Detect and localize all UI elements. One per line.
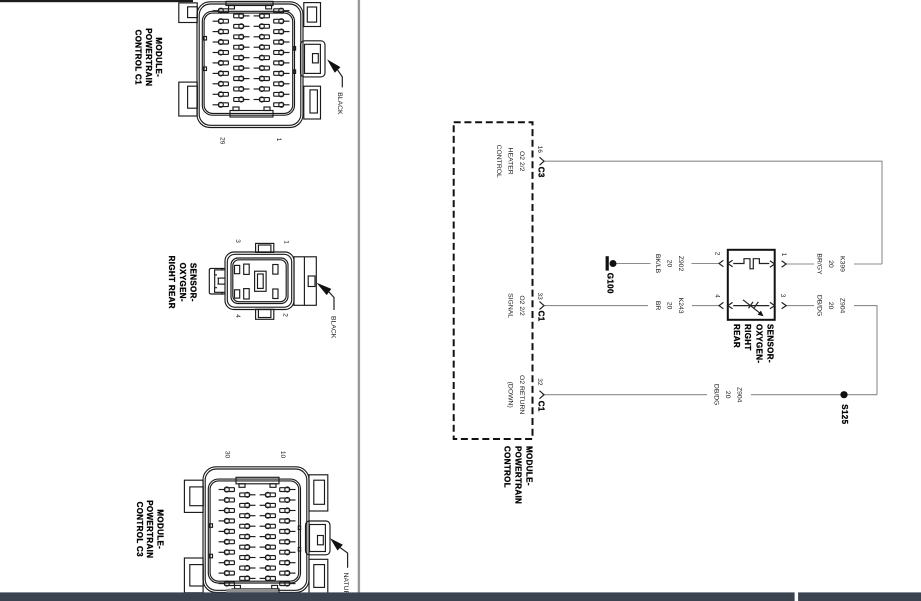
svg-text:REAR: REAR	[732, 324, 741, 348]
svg-text:K399: K399	[839, 256, 846, 272]
svg-text:O2 2/2: O2 2/2	[518, 295, 525, 316]
svg-text:C3: C3	[537, 167, 546, 178]
svg-text:POWERTRAIN: POWERTRAIN	[144, 28, 153, 86]
svg-text:MODULE-: MODULE-	[154, 37, 163, 77]
svg-text:CONTROL C1: CONTROL C1	[134, 30, 143, 86]
svg-text:20: 20	[827, 302, 834, 310]
svg-text:4: 4	[714, 294, 721, 298]
svg-text:BR/GY: BR/GY	[816, 253, 823, 275]
svg-text:O2 RETURN: O2 RETURN	[518, 375, 525, 414]
svg-text:CONTROL: CONTROL	[495, 145, 502, 178]
svg-text:20: 20	[666, 260, 673, 268]
svg-text:POWERTRAIN: POWERTRAIN	[145, 500, 154, 558]
svg-text:20: 20	[724, 391, 731, 399]
svg-text:CONTROL C3: CONTROL C3	[135, 502, 144, 558]
svg-text:2: 2	[714, 252, 721, 256]
svg-text:(DOWN): (DOWN)	[507, 382, 514, 408]
svg-text:OXYGEN-: OXYGEN-	[754, 324, 763, 363]
svg-text:33: 33	[536, 292, 543, 300]
svg-text:BLACK: BLACK	[330, 316, 337, 339]
svg-text:HEATER: HEATER	[507, 148, 514, 175]
svg-text:4: 4	[234, 314, 241, 318]
svg-text:BK/LB: BK/LB	[654, 254, 661, 274]
svg-text:Z904: Z904	[839, 298, 846, 314]
svg-text:DB/DG: DB/DG	[816, 295, 823, 317]
svg-text:MODULE-: MODULE-	[525, 446, 534, 486]
svg-text:BLACK: BLACK	[336, 92, 343, 115]
svg-text:29: 29	[219, 137, 226, 145]
svg-text:1: 1	[283, 240, 290, 244]
svg-text:O2 2/2: O2 2/2	[518, 151, 525, 172]
svg-text:K243: K243	[677, 298, 684, 314]
svg-text:30: 30	[224, 451, 231, 459]
svg-text:SENSOR-: SENSOR-	[189, 263, 198, 302]
svg-text:16: 16	[536, 146, 543, 154]
svg-text:SENSOR-: SENSOR-	[766, 324, 775, 363]
svg-text:Z904: Z904	[736, 387, 743, 403]
svg-text:1: 1	[275, 138, 282, 142]
svg-text:Z902: Z902	[677, 256, 684, 272]
svg-text:RIGHT: RIGHT	[743, 324, 752, 351]
svg-text:OXYGEN-: OXYGEN-	[178, 263, 187, 302]
svg-text:10: 10	[279, 451, 286, 459]
svg-text:2: 2	[282, 313, 289, 317]
svg-text:C1: C1	[537, 401, 546, 412]
svg-text:MODULE-: MODULE-	[155, 509, 164, 549]
svg-text:G100: G100	[606, 273, 615, 294]
svg-text:C1: C1	[537, 311, 546, 322]
svg-text:3: 3	[779, 294, 786, 298]
svg-text:20: 20	[666, 302, 673, 310]
svg-text:S125: S125	[840, 404, 849, 424]
svg-text:SIGNAL: SIGNAL	[507, 293, 514, 318]
svg-text:20: 20	[827, 260, 834, 268]
svg-text:3: 3	[234, 239, 241, 243]
svg-text:POWERTRAIN: POWERTRAIN	[514, 446, 523, 504]
svg-text:1: 1	[780, 253, 787, 257]
svg-text:32: 32	[536, 378, 543, 386]
svg-text:CONTROL: CONTROL	[503, 446, 512, 488]
svg-text:BR: BR	[654, 301, 661, 311]
svg-text:RIGHT REAR: RIGHT REAR	[167, 256, 176, 309]
svg-text:DB/DG: DB/DG	[713, 384, 720, 406]
